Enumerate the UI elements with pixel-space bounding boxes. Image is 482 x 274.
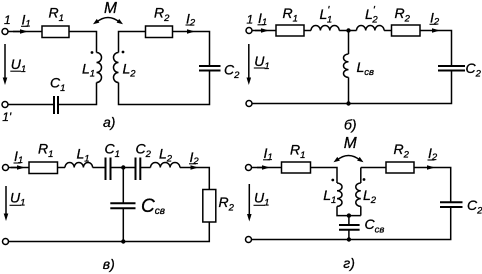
svg-text:1': 1'	[2, 110, 12, 124]
svg-text:б): б)	[344, 117, 357, 133]
svg-text:1: 1	[247, 13, 254, 27]
svg-text:M: M	[344, 135, 357, 152]
svg-text:1: 1	[4, 13, 11, 27]
svg-text:г): г)	[343, 255, 355, 271]
svg-text:M: M	[104, 0, 117, 17]
svg-text:в): в)	[103, 256, 115, 272]
svg-text:а): а)	[103, 114, 115, 130]
